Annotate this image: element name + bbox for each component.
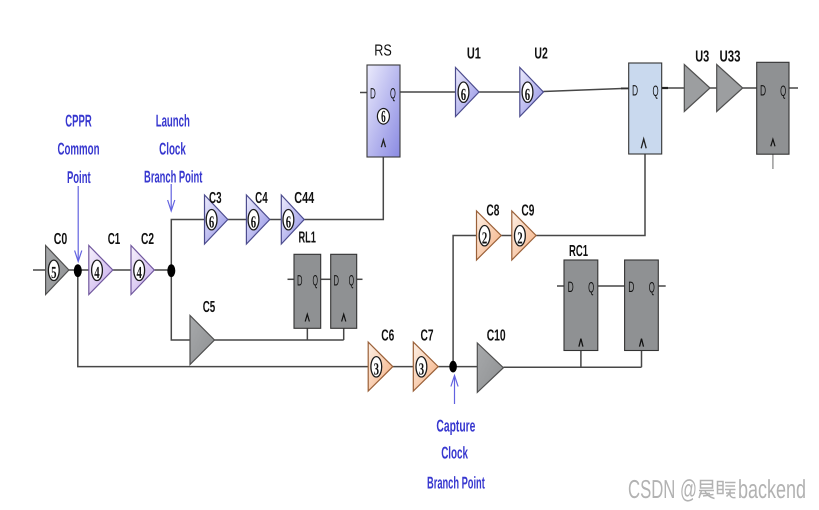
wire input to C0 <box>33 269 46 271</box>
flip-flop after U33 (gray) <box>757 62 789 154</box>
wire node capture up to C8 <box>453 236 476 367</box>
label Capture Clock Branch Point <box>427 417 485 493</box>
svg-text:U1: U1 <box>467 46 481 63</box>
svg-text:2: 2 <box>517 228 522 247</box>
buffer C10 <box>477 343 503 392</box>
svg-text:Q: Q <box>588 279 594 296</box>
svg-text:Point: Point <box>67 168 91 187</box>
svg-text:Clock: Clock <box>159 140 186 159</box>
wire C0 to node CPPR <box>69 269 78 271</box>
svg-text:C44: C44 <box>294 190 314 207</box>
wire node CPPR to C1 <box>78 269 89 271</box>
buffer C2 <box>131 246 154 295</box>
wire RL1 FF1 Q to FF2 D <box>321 278 331 280</box>
wire C4 to C44 <box>270 219 282 221</box>
buffer C5 <box>190 316 215 365</box>
svg-text:6: 6 <box>461 85 466 104</box>
wire node capture to C10 <box>453 366 477 368</box>
buffer U33 <box>717 65 743 112</box>
wire U1 to U2 <box>479 91 520 93</box>
svg-text:Q: Q <box>349 273 355 290</box>
buffer C0 <box>46 246 69 295</box>
svg-text:3: 3 <box>419 359 424 378</box>
svg-text:6: 6 <box>286 212 291 231</box>
svg-text:RC1: RC1 <box>569 243 588 260</box>
svg-text:C5: C5 <box>203 299 216 316</box>
wire C7 to node capture <box>438 366 453 368</box>
svg-text:Q: Q <box>312 273 318 290</box>
wire C5 to RL1 clock rail <box>215 339 344 341</box>
svg-text:CSDN @: CSDN @ <box>628 474 697 504</box>
svg-text:6: 6 <box>381 107 386 126</box>
label CPPR Common Point <box>58 112 100 187</box>
svg-text:Q: Q <box>652 83 658 100</box>
wire U2 to FF2 D <box>543 88 628 91</box>
buffer U3 <box>684 65 710 112</box>
wire C9 to FF2 clock <box>536 154 645 236</box>
wire FF2 Q bold stub <box>662 87 668 89</box>
svg-text:Branch Point: Branch Point <box>427 474 485 493</box>
svg-text:D: D <box>628 279 634 296</box>
wire C44 to RS clock <box>304 157 383 220</box>
arrow capture branch point <box>451 376 458 405</box>
svg-text:C9: C9 <box>521 203 534 220</box>
wire C3 to C4 <box>228 219 247 221</box>
svg-text:C7: C7 <box>421 328 434 345</box>
arrow launch branch point <box>168 184 175 211</box>
wire U3 to U33 <box>710 87 717 89</box>
svg-text:6: 6 <box>251 212 256 231</box>
wire C6 to C7 <box>393 366 414 368</box>
wire FF3 bottom stub <box>772 154 774 169</box>
svg-text:C2: C2 <box>141 231 154 248</box>
buffer U2 <box>520 68 544 117</box>
wire U33 to FF3 D <box>743 87 757 89</box>
watermark CSDN <box>628 474 697 504</box>
wire RS D stub <box>360 92 367 94</box>
svg-text:U33: U33 <box>720 49 741 66</box>
svg-text:3: 3 <box>374 359 379 378</box>
svg-text:4: 4 <box>137 263 143 282</box>
flip-flop RL1 FF2 <box>331 254 357 328</box>
svg-text:C4: C4 <box>255 190 268 207</box>
buffer C44 <box>281 195 304 244</box>
flip-flop RL1 FF1 <box>294 254 321 328</box>
svg-text:4: 4 <box>94 263 100 282</box>
svg-text:D: D <box>333 272 339 289</box>
wire launch branch up <box>171 220 204 271</box>
wire RL1 FF1 D stub <box>288 278 295 280</box>
label Launch Clock Branch Point <box>144 112 202 187</box>
svg-text:D: D <box>760 83 766 100</box>
wire FF3 Q stub <box>789 87 798 89</box>
wire node CPPR down to C6 <box>78 270 368 367</box>
wire C8 to C9 <box>501 235 512 237</box>
wire C2 to node launch branch <box>154 269 171 271</box>
wire RC1 FF1 clock stub <box>580 351 582 368</box>
svg-text:U3: U3 <box>695 49 709 66</box>
buffer C9 <box>512 211 536 260</box>
svg-text:Q: Q <box>780 83 786 100</box>
svg-text:U2: U2 <box>534 46 547 63</box>
flip-flop capture-end launch reg (blue) <box>629 63 662 154</box>
svg-text:C1: C1 <box>108 231 121 248</box>
wire RC1 FF2 clock stub <box>641 351 643 368</box>
svg-text:C6: C6 <box>381 328 394 345</box>
svg-text:backend: backend <box>738 474 806 504</box>
svg-text:C3: C3 <box>209 190 222 207</box>
wire RL1 FF2 clock stub <box>343 328 345 340</box>
svg-text:Branch Point: Branch Point <box>144 168 202 187</box>
wire RC1 FF2 Q stub <box>658 285 665 287</box>
wire RL1 FF2 Q stub <box>357 278 363 280</box>
svg-text:D: D <box>568 279 574 296</box>
svg-text:D: D <box>632 83 638 100</box>
buffer C4 <box>246 195 269 244</box>
arrow CPPR to common point <box>75 186 82 262</box>
svg-text:D: D <box>297 272 303 289</box>
wire RC1 FF1 D stub <box>557 285 564 287</box>
svg-text:6: 6 <box>209 212 214 231</box>
wire FF2 D bold stub <box>621 87 629 89</box>
wire C1 to C2 <box>113 269 131 271</box>
buffer C1 <box>89 246 113 295</box>
watermark backend <box>738 474 806 504</box>
node launch clock branch point <box>167 264 175 277</box>
wire RL1 FF1 clock stub <box>306 328 308 340</box>
wire RC1 FF1 Q to FF2 D <box>598 285 625 287</box>
svg-text:Capture: Capture <box>436 417 475 436</box>
svg-text:Q: Q <box>390 86 396 103</box>
buffer C8 <box>477 211 502 260</box>
svg-text:Q: Q <box>649 279 655 296</box>
svg-text:2: 2 <box>482 228 487 247</box>
svg-text:RL1: RL1 <box>298 230 316 247</box>
buffer C6 <box>368 342 393 391</box>
buffer C7 <box>413 342 438 391</box>
svg-text:C8: C8 <box>486 203 499 220</box>
buffer U1 <box>456 68 480 117</box>
svg-text:C0: C0 <box>54 231 68 248</box>
svg-text:C10: C10 <box>487 327 506 344</box>
svg-text:D: D <box>370 85 376 102</box>
svg-text:Common: Common <box>58 140 100 159</box>
svg-text:Clock: Clock <box>441 444 468 463</box>
wire FF2 Q to U3 <box>667 87 685 89</box>
node CPPR common point <box>74 264 82 277</box>
wire RS Q to U1 <box>400 91 456 93</box>
svg-text:CPPR: CPPR <box>65 112 91 131</box>
flip-flop RC1 FF1 <box>564 260 598 351</box>
wire C10 to RC1 clock rail <box>503 366 641 368</box>
flip-flop RC1 FF2 <box>625 260 659 351</box>
wire launch branch down to C5 <box>171 270 190 340</box>
svg-text:6: 6 <box>525 85 530 104</box>
svg-text:5: 5 <box>51 263 56 282</box>
watermark CJK glyph xi <box>718 482 736 498</box>
svg-text:Launch: Launch <box>156 112 190 131</box>
flip-flop RS <box>367 65 400 157</box>
svg-text:RS: RS <box>374 43 392 60</box>
node capture clock branch point <box>449 361 457 373</box>
watermark CJK glyph chen <box>699 481 715 499</box>
buffer C3 <box>205 195 228 244</box>
